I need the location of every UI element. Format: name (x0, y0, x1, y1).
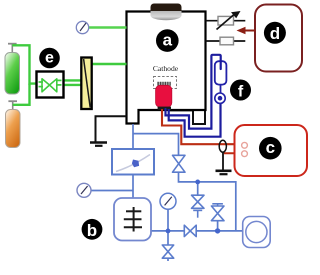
svg-text:d: d (270, 24, 280, 43)
valve V5 on foreline (184, 225, 196, 236)
label a (156, 29, 179, 52)
valve V1 (173, 155, 186, 172)
label d (264, 22, 286, 44)
gas line filter to chamber (93, 63, 127, 65)
valve V4 outlet stub (167, 258, 169, 261)
gas line from green bottle to valve e (12, 45, 36, 83)
arrow from d (237, 27, 256, 35)
gate valve box (112, 149, 154, 175)
variable leak valve (217, 11, 241, 30)
gas line from orange bottle joining valve e inlet (13, 84, 30, 105)
label e (39, 48, 60, 69)
cathode body (156, 82, 172, 110)
pin 2 (242, 151, 248, 157)
vacuum pipes light blue (91, 124, 243, 261)
wire red pin2 (224, 152, 242, 154)
chamber a vessel outline (127, 12, 206, 124)
gas line valve e to filter upper (64, 79, 81, 81)
svg-text:b: b (87, 221, 97, 240)
wire red : cathode to feedthrough (162, 109, 242, 144)
valve V3 stem (217, 221, 219, 231)
green gas lines (12, 45, 126, 105)
svg-text:Cathode: Cathode (153, 64, 179, 73)
gas bottle orange (6, 101, 21, 147)
filter yellow box (81, 58, 91, 110)
box c (235, 125, 308, 176)
pipe valve V1 to manifold (179, 173, 236, 231)
connector ground (216, 152, 232, 174)
pipe gate valve to pump b (132, 175, 134, 199)
label b (82, 219, 103, 240)
pipe branch to right valve (133, 134, 179, 155)
leak valve line (206, 20, 246, 22)
valve V2 with bleed stem (192, 195, 205, 218)
pipe chamber to gate valve (132, 124, 134, 149)
wire blue A : cathode to top of f loop (166, 55, 221, 129)
f tube to meter stem (220, 85, 222, 93)
ground left of chamber (90, 116, 127, 146)
junction node 3 (195, 180, 200, 185)
junction node 1 (166, 229, 171, 234)
svg-text:a: a (163, 30, 173, 49)
gas line valve e to filter lower (64, 84, 81, 86)
rotary pump (243, 217, 271, 248)
feedthrough connector (219, 140, 226, 152)
box d (255, 5, 302, 72)
turbo pump b box (114, 198, 151, 241)
gas bottle green (5, 44, 20, 94)
pin 1 (242, 142, 248, 148)
main foreline pipe (151, 230, 243, 232)
cathode dashed box (154, 77, 177, 89)
window port line (206, 40, 246, 42)
label c (259, 137, 282, 160)
valve V4 stem (167, 231, 169, 245)
valve V3 with cap (211, 204, 224, 221)
pipe V2 drop (197, 182, 199, 195)
svg-text:f: f (238, 83, 244, 100)
gauge G3 (160, 193, 176, 209)
label f (230, 80, 251, 101)
svg-text:e: e (45, 50, 54, 67)
gauge G1 top-left (76, 21, 126, 33)
valve box e (37, 72, 64, 98)
gauge G3 stem (167, 210, 169, 231)
window port (220, 37, 234, 45)
cap on top of chamber (151, 4, 182, 21)
flow tube f (215, 61, 227, 84)
pipe gauge G2 to pipe (91, 190, 133, 192)
gauge G2 (77, 183, 91, 197)
valve V4 below gauge (162, 245, 173, 258)
junction node 2 (215, 228, 220, 233)
turbo pump symbol (124, 207, 142, 232)
wire blue B : cathode to bottom of f meter (169, 104, 221, 137)
wire black from cathode to chamber wall (169, 110, 205, 124)
f meter circle (215, 93, 225, 103)
svg-text:c: c (266, 138, 275, 157)
